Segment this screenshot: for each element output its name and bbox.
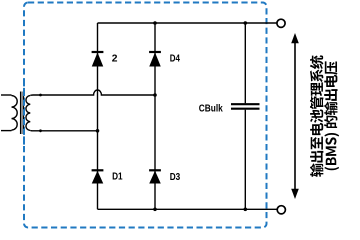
output terminal circle bottom (277, 206, 285, 214)
wire: cap branch lower (244, 110, 246, 210)
output terminal circle top (277, 19, 285, 27)
voltage span arrow (double headed) (291, 33, 299, 199)
transformer T1 primary top lead wire (1, 94, 12, 96)
wire: right bridge branch vertical (154, 23, 156, 209)
svg-text:D4: D4 (170, 53, 180, 64)
transformer T1 primary bottom lead wire (1, 130, 12, 132)
transformer T1 secondary winding (26, 96, 30, 131)
diode D4 (149, 51, 161, 53)
wire: top output rail (98, 22, 277, 24)
dashed boundary overlay across transformer core (23, 83, 25, 150)
dashed boundary box (converter output section) (24, 3, 267, 228)
diode D1 (92, 169, 104, 171)
transformer T1 core (21, 92, 24, 135)
junction dot at left branch / secondary bottom (96, 129, 100, 133)
diode D2 (92, 51, 104, 53)
svg-text:2: 2 (112, 53, 118, 64)
wire: secondary top to right bridge branch (with hop over left branch) (30, 90, 155, 96)
svg-text:D1: D1 (112, 172, 123, 183)
capacitor CBulk (231, 104, 260, 109)
junction dot at right branch / secondary top (153, 93, 157, 97)
junction dot top rail at cap branch (244, 21, 248, 25)
polarity dot on secondary bottom wire (39, 129, 42, 132)
junction dot bottom rail at cap branch (244, 208, 248, 212)
wire: bottom output rail (98, 208, 277, 210)
polarity dot on secondary top wire (39, 94, 42, 97)
svg-text:CBulk: CBulk (199, 103, 223, 114)
diode D3 (149, 169, 161, 171)
transformer T1 primary winding (12, 96, 18, 131)
wire: secondary bottom to left bridge branch (30, 129, 97, 132)
wire: cap branch upper (244, 23, 246, 103)
svg-text:D3: D3 (170, 172, 181, 183)
annotation: 输出至电池管理系统 (BMS) 的输出电压 (310, 55, 339, 176)
junction dot bottom rail at right branch (153, 208, 157, 212)
junction dot top rail at right branch (153, 21, 157, 25)
wire: left bridge branch vertical (97, 23, 99, 209)
